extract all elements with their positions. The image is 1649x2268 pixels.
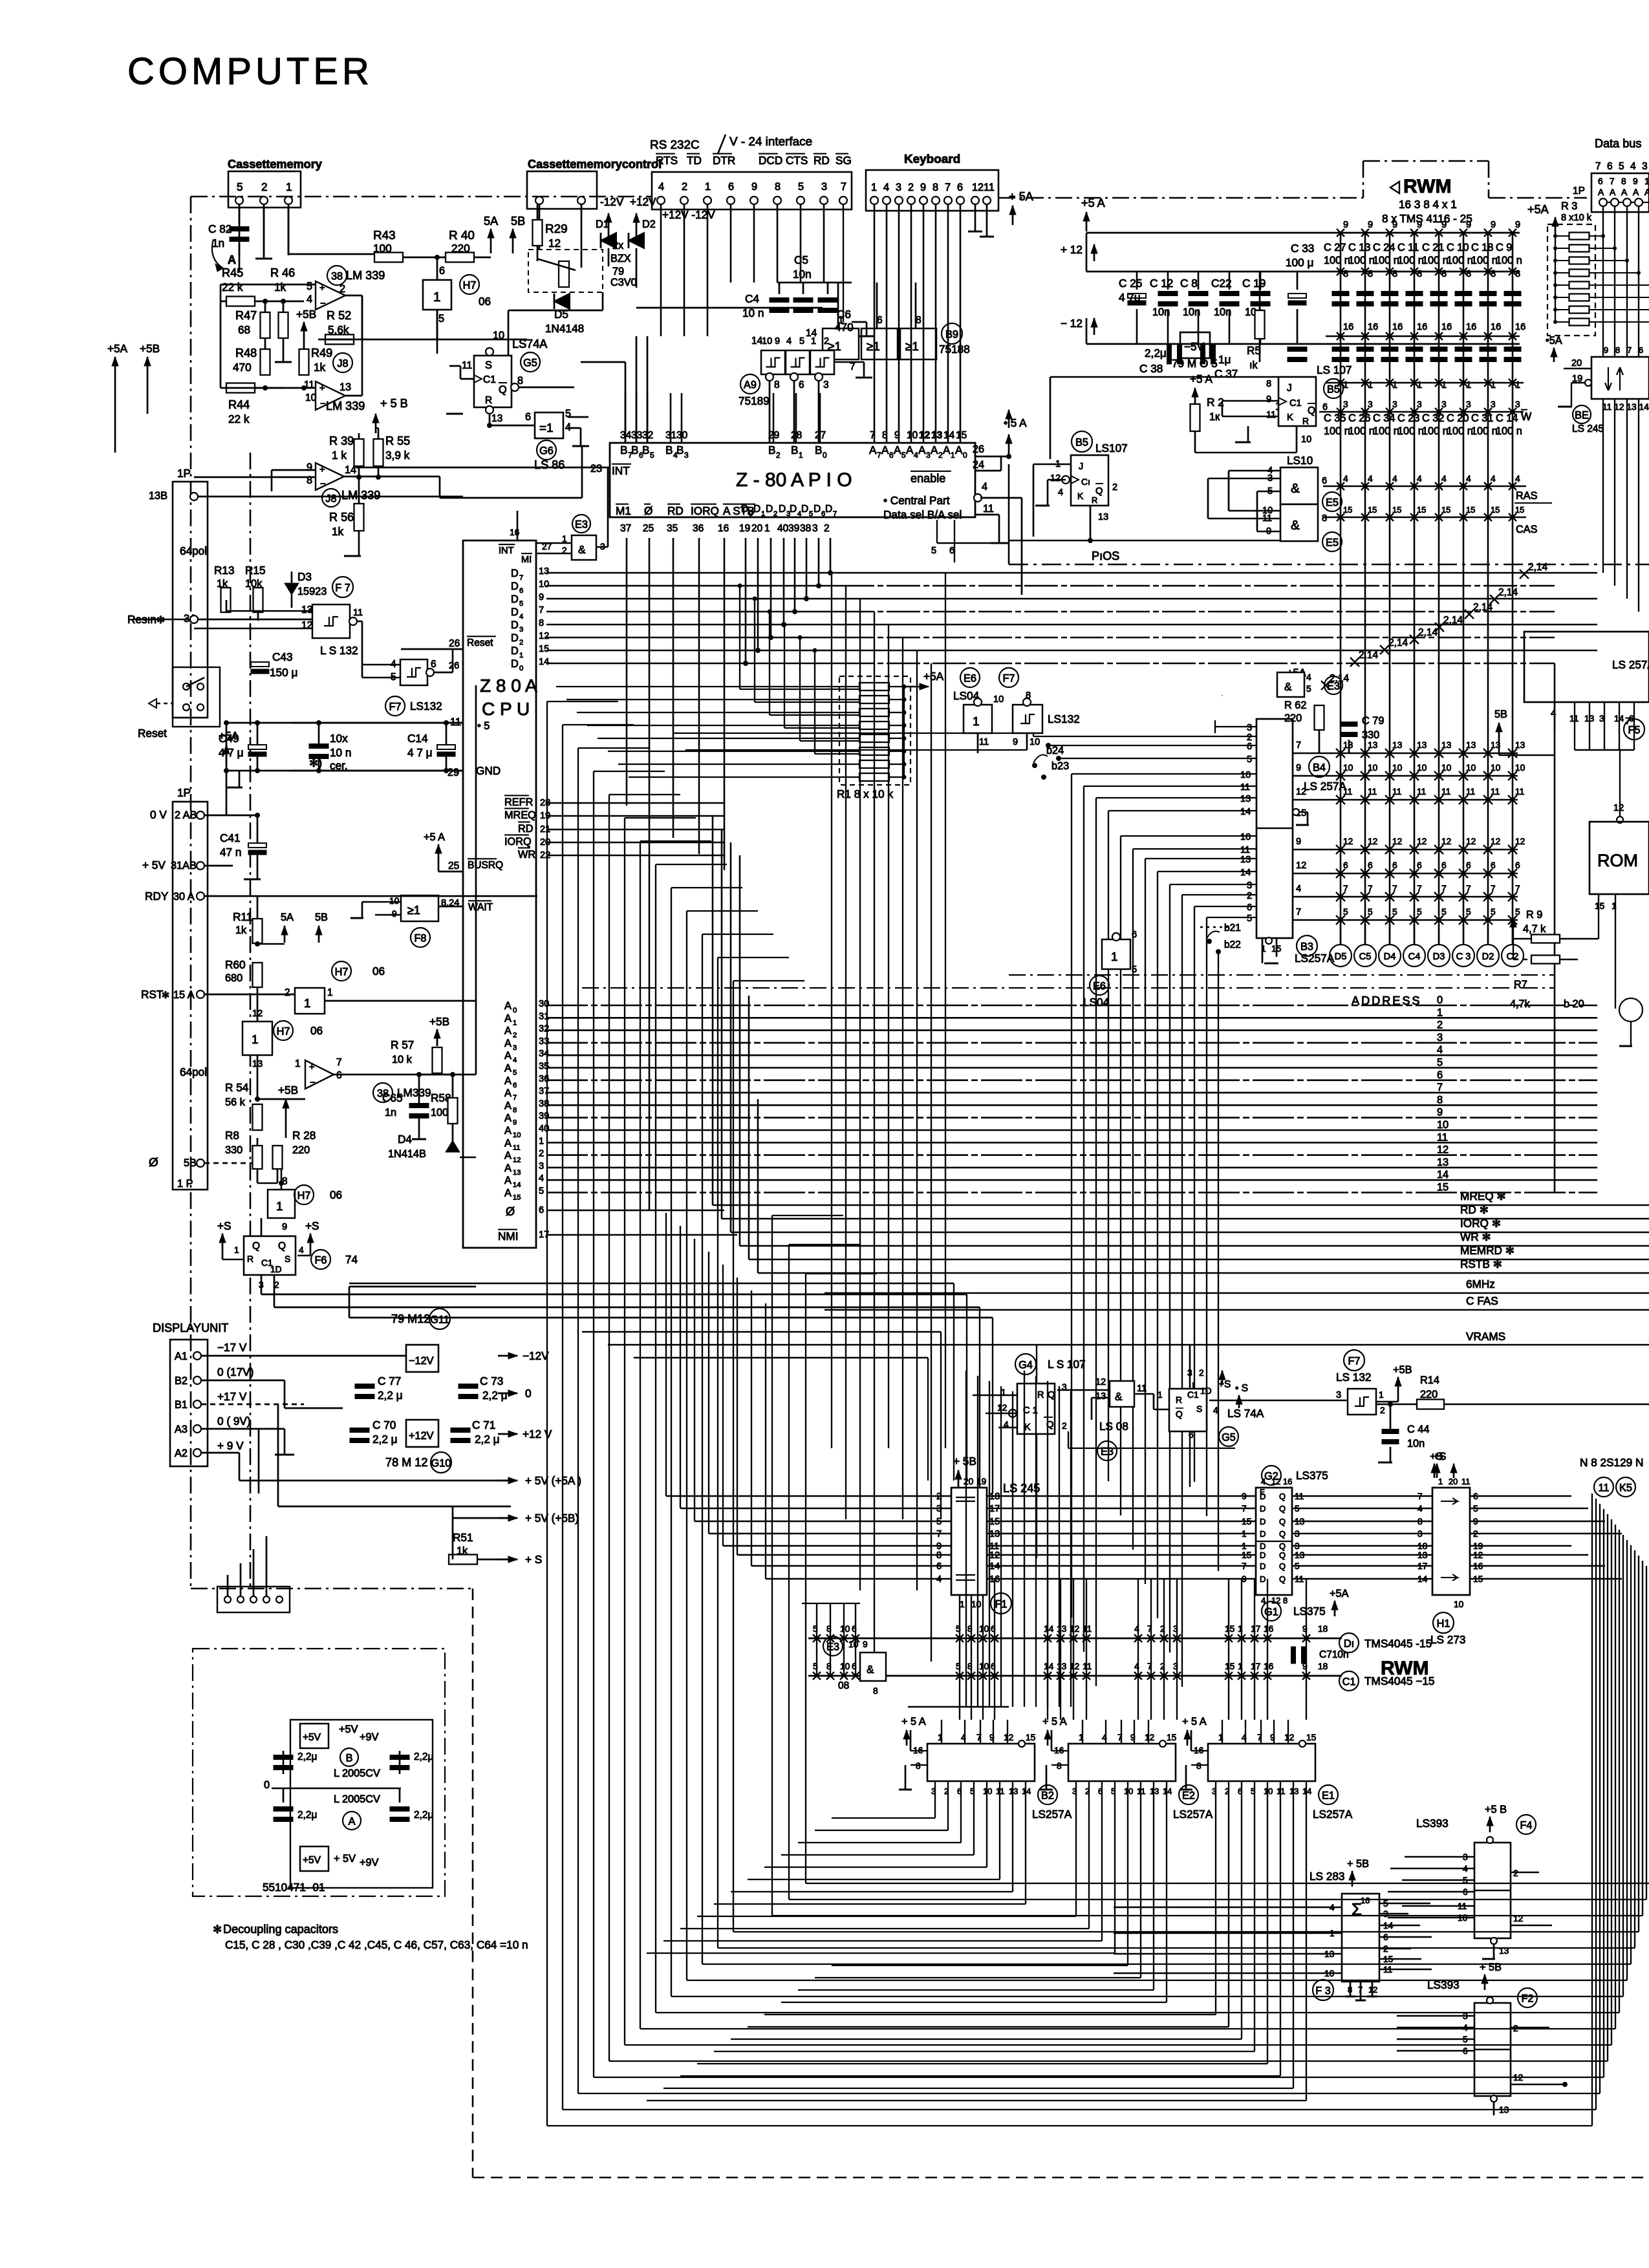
svg-text:R 3: R 3	[1561, 200, 1577, 212]
svg-text:3,9 k: 3,9 k	[385, 449, 410, 462]
svg-text:3: 3	[1515, 400, 1520, 409]
svg-text:LM 339: LM 339	[346, 269, 385, 282]
svg-text:15: 15	[1242, 1517, 1252, 1526]
svg-text:7: 7	[1417, 884, 1422, 893]
svg-text:A: A	[504, 1075, 512, 1087]
svg-text:LS 74A: LS 74A	[1227, 1407, 1264, 1420]
svg-text:15: 15	[1306, 1733, 1317, 1742]
svg-text:12: 12	[919, 430, 930, 441]
svg-text:1k: 1k	[332, 525, 344, 538]
svg-text:10: 10	[993, 694, 1004, 705]
svg-text:+5B: +5B	[296, 308, 316, 321]
svg-text:3: 3	[1343, 400, 1348, 409]
svg-text:13: 13	[931, 430, 943, 441]
svg-text:15: 15	[1343, 505, 1352, 515]
svg-text:R47: R47	[235, 309, 257, 322]
svg-text:C 18: C 18	[1471, 242, 1493, 253]
svg-text:C 19: C 19	[1242, 277, 1266, 290]
svg-text:15: 15	[513, 1194, 521, 1202]
svg-text:6: 6	[1491, 861, 1496, 870]
svg-text:C 73: C 73	[480, 1375, 503, 1387]
svg-text:2: 2	[1062, 1421, 1067, 1431]
svg-text:B3: B3	[1300, 941, 1313, 953]
svg-text:Ø: Ø	[644, 504, 652, 517]
svg-text:IORQ: IORQ	[504, 836, 532, 848]
svg-text:4: 4	[1491, 474, 1496, 484]
svg-text:C41: C41	[220, 831, 241, 844]
svg-text:7: 7	[1242, 1504, 1247, 1514]
svg-text:8: 8	[513, 1106, 517, 1114]
svg-text:10: 10	[1515, 763, 1525, 773]
svg-text:11: 11	[353, 608, 363, 618]
svg-text:&: &	[1115, 1390, 1123, 1403]
svg-text:7: 7	[1515, 884, 1520, 893]
svg-text:08: 08	[838, 1680, 849, 1691]
svg-text:1P: 1P	[177, 467, 191, 480]
svg-text:15: 15	[539, 644, 549, 654]
svg-text:A: A	[504, 1000, 512, 1012]
svg-text:D: D	[511, 594, 519, 605]
svg-text:3: 3	[1466, 400, 1471, 409]
svg-text:15 A: 15 A	[173, 989, 195, 1001]
svg-text:LS375: LS375	[1296, 1469, 1328, 1482]
svg-text:13: 13	[1437, 1157, 1449, 1168]
svg-text:12: 12	[1466, 837, 1476, 846]
svg-text:F 7: F 7	[335, 583, 350, 594]
svg-text:3: 3	[1599, 714, 1604, 723]
svg-text:31AB: 31AB	[171, 860, 197, 872]
svg-text:7: 7	[1441, 884, 1447, 893]
svg-text:R44: R44	[228, 398, 250, 411]
svg-text:9: 9	[392, 909, 397, 919]
svg-text:BZX: BZX	[610, 253, 631, 264]
svg-text:Cı: Cı	[1081, 477, 1090, 487]
svg-text:-12V: -12V	[600, 195, 624, 208]
svg-text:1k: 1k	[235, 925, 247, 936]
svg-text:LS375: LS375	[1293, 1605, 1326, 1618]
svg-text:+ 5B: + 5B	[1480, 1962, 1502, 1973]
svg-text:4: 4	[1306, 672, 1311, 682]
svg-text:WAIT: WAIT	[468, 902, 493, 913]
svg-text:D: D	[1260, 1550, 1266, 1560]
svg-text:J8: J8	[325, 493, 336, 505]
svg-text:14: 14	[1240, 868, 1251, 878]
svg-text:5: 5	[931, 546, 936, 556]
svg-text:10n: 10n	[1214, 306, 1231, 318]
svg-text:14: 14	[751, 336, 763, 347]
svg-text:5: 5	[1343, 907, 1348, 917]
svg-text:1: 1	[304, 997, 311, 1011]
svg-text:Cassettememorycontrol: Cassettememorycontrol	[528, 158, 662, 171]
svg-text:C 21: C 21	[1422, 242, 1444, 253]
svg-text:C 27: C 27	[1324, 242, 1346, 253]
svg-text:−: −	[320, 479, 326, 489]
svg-text:≥1: ≥1	[905, 340, 919, 354]
svg-text:1k: 1k	[314, 361, 326, 374]
svg-text:+12V -12V: +12V -12V	[662, 208, 715, 221]
svg-text:A: A	[1633, 187, 1639, 197]
svg-text:RST: RST	[141, 988, 164, 1001]
svg-text:13: 13	[1417, 740, 1427, 750]
svg-text:D: D	[766, 504, 773, 515]
svg-text:16: 16	[1466, 322, 1476, 332]
svg-text:1: 1	[1438, 1477, 1443, 1486]
svg-text:4: 4	[1058, 487, 1063, 498]
svg-text:100 n: 100 n	[1422, 255, 1449, 266]
svg-text:ık: ık	[1249, 359, 1258, 371]
svg-text:≥1: ≥1	[407, 904, 420, 917]
svg-text:A: A	[504, 1038, 512, 1049]
svg-text:RAS: RAS	[1516, 490, 1538, 502]
svg-text:+ 12: + 12	[1061, 243, 1083, 256]
svg-text:A: A	[504, 1025, 512, 1037]
svg-text:100 n: 100 n	[1496, 255, 1522, 266]
svg-text:+S: +S	[305, 1219, 319, 1232]
svg-text:2,2μ: 2,2μ	[297, 1810, 317, 1821]
svg-text:11: 11	[1240, 845, 1250, 855]
svg-text:E1: E1	[1322, 1790, 1335, 1802]
svg-text:C 33: C 33	[1291, 242, 1314, 255]
svg-text:LS 245: LS 245	[1003, 1482, 1040, 1495]
svg-text:22 k: 22 k	[222, 281, 243, 294]
svg-text:A1: A1	[175, 1351, 188, 1362]
svg-text:B5: B5	[1075, 437, 1088, 449]
svg-text:C 12: C 12	[1150, 277, 1173, 290]
svg-text:2: 2	[1112, 482, 1117, 493]
svg-text:R 57: R 57	[391, 1038, 414, 1051]
svg-text:10: 10	[1240, 770, 1251, 780]
svg-text:RD ✻: RD ✻	[1460, 1203, 1489, 1216]
svg-text:5: 5	[438, 313, 444, 325]
svg-text:C3V0: C3V0	[610, 277, 637, 288]
svg-text:+12V: +12V	[409, 1430, 434, 1442]
svg-text:5B: 5B	[1494, 709, 1507, 720]
svg-text:12: 12	[1296, 787, 1306, 797]
svg-text:100 n: 100 n	[1348, 425, 1375, 437]
svg-text:LS 245: LS 245	[1572, 423, 1604, 434]
svg-text:A: A	[504, 1113, 512, 1124]
svg-text:R 39: R 39	[329, 434, 354, 447]
svg-text:2,2μ: 2,2μ	[414, 1810, 433, 1821]
svg-text:4: 4	[1437, 1044, 1443, 1056]
svg-text:+5A: +5A	[1527, 203, 1549, 216]
svg-text:1: 1	[1242, 1541, 1247, 1551]
svg-text:K5: K5	[1619, 1482, 1632, 1494]
svg-text:B: B	[815, 444, 822, 456]
svg-text:9: 9	[1013, 737, 1018, 747]
svg-text:22 k: 22 k	[228, 412, 250, 425]
svg-text:E2: E2	[1182, 1790, 1195, 1802]
svg-text:R29: R29	[545, 222, 568, 236]
svg-text:✻: ✻	[162, 990, 169, 1001]
svg-text:8: 8	[1615, 345, 1620, 355]
svg-text:Reset: Reset	[467, 637, 493, 648]
svg-text:C5: C5	[794, 253, 808, 266]
svg-text:10: 10	[1029, 737, 1040, 747]
svg-text:13: 13	[513, 1169, 521, 1177]
svg-text:100 n: 100 n	[1496, 425, 1522, 437]
svg-text:C 44: C 44	[1407, 1424, 1429, 1435]
svg-text:BE: BE	[1575, 410, 1589, 422]
svg-text:0: 0	[1437, 994, 1443, 1006]
svg-text:TD: TD	[687, 154, 702, 167]
svg-text:16: 16	[1515, 322, 1525, 332]
svg-text:11: 11	[1441, 787, 1450, 797]
svg-text:G5: G5	[523, 358, 537, 369]
svg-text:6: 6	[957, 182, 963, 193]
svg-text:10 n: 10 n	[742, 306, 764, 319]
svg-text:2: 2	[908, 182, 914, 193]
svg-text:1: 1	[433, 290, 440, 305]
svg-text:4: 4	[883, 182, 889, 193]
svg-text:D: D	[1260, 1529, 1266, 1539]
svg-text:LS 86: LS 86	[534, 458, 565, 471]
svg-text:220: 220	[1420, 1389, 1438, 1400]
svg-text:26: 26	[449, 638, 460, 649]
svg-text:24: 24	[973, 459, 984, 471]
svg-text:14: 14	[1437, 1169, 1449, 1181]
svg-text:1P: 1P	[177, 786, 191, 799]
svg-text:12: 12	[1515, 837, 1525, 846]
svg-text:−: −	[320, 399, 326, 409]
svg-text:+5V: +5V	[339, 1724, 358, 1735]
svg-text:11: 11	[979, 737, 989, 747]
svg-text:D3: D3	[1433, 952, 1445, 962]
svg-text:0: 0	[264, 1779, 270, 1791]
svg-text:06: 06	[372, 965, 385, 978]
svg-text:100 n: 100 n	[1324, 255, 1350, 266]
svg-text:E3: E3	[826, 1642, 839, 1653]
svg-text:Q: Q	[252, 1241, 260, 1252]
svg-text:4: 4	[1515, 474, 1520, 484]
svg-text:37: 37	[620, 523, 631, 534]
svg-text:S: S	[285, 1254, 290, 1264]
svg-text:+5B: +5B	[140, 342, 160, 355]
svg-text:D4: D4	[398, 1133, 412, 1146]
svg-text:B: B	[676, 444, 684, 456]
svg-text:S: S	[1196, 1404, 1202, 1414]
svg-text:MREQ ✻: MREQ ✻	[1460, 1190, 1506, 1203]
svg-text:3: 3	[513, 1044, 517, 1052]
svg-text:3: 3	[926, 451, 931, 460]
svg-text:13: 13	[1098, 512, 1108, 522]
svg-text:b23: b23	[1051, 760, 1069, 772]
svg-text:11: 11	[513, 1144, 521, 1151]
svg-text:15: 15	[1466, 505, 1475, 515]
svg-text:COMPUTER: COMPUTER	[127, 50, 373, 92]
svg-text:7: 7	[841, 181, 846, 193]
svg-text:5: 5	[1368, 907, 1373, 917]
svg-text:W: W	[1521, 410, 1532, 423]
svg-text:C1: C1	[1342, 1676, 1356, 1688]
svg-text:12: 12	[1491, 837, 1500, 846]
svg-text:5: 5	[1247, 914, 1252, 924]
svg-text:R 40: R 40	[449, 229, 475, 242]
svg-text:68: 68	[238, 323, 250, 336]
svg-text:Q: Q	[1279, 1504, 1286, 1514]
svg-text:B4: B4	[1313, 762, 1326, 774]
svg-text:A: A	[955, 444, 963, 456]
svg-text:11: 11	[1392, 787, 1401, 797]
svg-text:10: 10	[1644, 177, 1649, 186]
svg-text:9: 9	[1266, 394, 1271, 405]
svg-text:− 12: − 12	[1061, 317, 1083, 330]
svg-text:10: 10	[1301, 434, 1311, 445]
svg-text:14: 14	[539, 657, 549, 667]
svg-text:+12V: +12V	[630, 195, 656, 208]
svg-text:WR ✻: WR ✻	[1460, 1230, 1491, 1243]
svg-text:13: 13	[301, 604, 312, 615]
svg-text:4 7 μ: 4 7 μ	[219, 746, 244, 759]
svg-text:A: A	[504, 1100, 512, 1111]
svg-text:K: K	[1077, 491, 1084, 501]
svg-text:E6: E6	[964, 673, 976, 685]
svg-text:+: +	[309, 1062, 315, 1073]
svg-text:470: 470	[835, 321, 854, 334]
svg-text:+5V: +5V	[303, 1732, 321, 1743]
svg-text:1: 1	[799, 451, 803, 460]
svg-text:✻: ✻	[156, 615, 165, 626]
svg-text:4: 4	[1368, 474, 1373, 484]
svg-text:B1: B1	[175, 1399, 188, 1411]
svg-text:26: 26	[449, 661, 459, 671]
svg-text:330: 330	[1362, 729, 1379, 741]
svg-text:16: 16	[1491, 322, 1501, 332]
svg-text:1D: 1D	[1200, 1386, 1212, 1396]
svg-text:8: 8	[1621, 177, 1626, 186]
svg-text:8: 8	[1196, 1761, 1202, 1771]
svg-text:100 n: 100 n	[1447, 255, 1473, 266]
svg-text:K: K	[1287, 412, 1293, 423]
svg-text:12: 12	[1613, 803, 1624, 813]
svg-text:12: 12	[1417, 837, 1427, 846]
svg-text:+: +	[319, 283, 325, 294]
svg-text:10n: 10n	[1152, 306, 1170, 318]
svg-text:D: D	[1260, 1504, 1266, 1514]
svg-text:5: 5	[901, 451, 906, 460]
svg-text:10: 10	[979, 1662, 989, 1671]
svg-text:R13: R13	[214, 564, 235, 577]
svg-text:LS132: LS132	[1048, 712, 1080, 725]
svg-text:MI: MI	[521, 555, 532, 565]
svg-text:B5: B5	[1327, 384, 1340, 396]
svg-text:1: 1	[295, 1058, 301, 1069]
svg-text:16: 16	[510, 528, 520, 537]
svg-text:C1: C1	[1187, 1390, 1199, 1400]
svg-text:5: 5	[1132, 965, 1137, 975]
svg-text:+5V: +5V	[303, 1855, 321, 1866]
svg-text:12: 12	[1368, 837, 1377, 846]
svg-text:13: 13	[1095, 1391, 1106, 1402]
svg-text:E5: E5	[1326, 537, 1339, 549]
svg-text:R: R	[1302, 416, 1309, 426]
svg-text:4: 4	[307, 294, 312, 305]
svg-text:15: 15	[1167, 1733, 1177, 1742]
svg-text:6: 6	[439, 265, 445, 277]
svg-text:16: 16	[1264, 1624, 1274, 1634]
svg-text:+9V: +9V	[360, 1731, 379, 1743]
svg-text:R15: R15	[245, 564, 266, 577]
svg-text:5: 5	[1619, 161, 1624, 172]
svg-text:D: D	[511, 568, 519, 579]
svg-text:DCD: DCD	[759, 154, 782, 167]
svg-text:Z - 80 A P I O: Z - 80 A P I O	[736, 469, 852, 491]
svg-text:100 n: 100 n	[1397, 255, 1424, 266]
svg-text:A: A	[918, 444, 926, 456]
svg-text:11: 11	[1599, 1482, 1610, 1494]
svg-text:4: 4	[786, 336, 792, 347]
svg-text:5: 5	[1466, 907, 1471, 917]
svg-text:H7: H7	[335, 967, 349, 978]
svg-text:6: 6	[1639, 345, 1643, 355]
svg-text:−12V: −12V	[523, 1349, 549, 1362]
svg-text:14: 14	[1240, 807, 1251, 817]
svg-text:F4: F4	[1520, 1820, 1532, 1832]
svg-text:11: 11	[1137, 1384, 1147, 1394]
svg-text:R 62: R 62	[1284, 700, 1306, 711]
svg-text:A: A	[504, 1150, 512, 1162]
svg-text:B: B	[620, 444, 627, 456]
svg-text:3: 3	[823, 380, 829, 390]
svg-text:64pol: 64pol	[180, 544, 207, 557]
svg-text:5: 5	[1417, 907, 1422, 917]
svg-text:2,2μ: 2,2μ	[414, 1751, 433, 1762]
svg-text:A: A	[504, 1063, 512, 1075]
svg-text:F7: F7	[389, 701, 401, 713]
svg-text:C4: C4	[1408, 952, 1421, 962]
svg-text:12: 12	[1145, 1733, 1154, 1742]
svg-text:LS 132: LS 132	[1336, 1371, 1371, 1384]
svg-text:14: 14	[1044, 1624, 1054, 1634]
svg-text:C FAS: C FAS	[1466, 1294, 1498, 1307]
svg-text:20: 20	[964, 1477, 974, 1486]
svg-text:3: 3	[1247, 723, 1252, 733]
svg-text:11: 11	[1266, 410, 1276, 420]
svg-text:A: A	[349, 1816, 356, 1828]
svg-text:LM 339: LM 339	[326, 400, 365, 412]
svg-text:2,2μ: 2,2μ	[1145, 347, 1167, 359]
svg-text:R 56: R 56	[329, 511, 354, 524]
svg-text:13B: 13B	[149, 490, 167, 502]
svg-text:6: 6	[852, 1624, 857, 1634]
svg-text:LS 283: LS 283	[1309, 1870, 1344, 1883]
svg-text:12: 12	[539, 631, 549, 641]
svg-text:40: 40	[777, 523, 789, 534]
svg-text:10: 10	[1343, 763, 1353, 773]
svg-text:5: 5	[650, 451, 654, 460]
svg-text:12: 12	[1095, 1377, 1106, 1387]
svg-text:A: A	[869, 444, 877, 456]
svg-text:R14: R14	[1420, 1375, 1439, 1386]
svg-text:D5: D5	[1335, 952, 1347, 962]
svg-text:Q: Q	[1279, 1492, 1286, 1501]
svg-text:3: 3	[812, 523, 818, 534]
svg-text:5: 5	[799, 336, 804, 347]
svg-text:0: 0	[823, 451, 827, 460]
svg-text:1: 1	[1111, 950, 1118, 964]
svg-text:4: 4	[513, 1056, 517, 1064]
svg-text:4: 4	[1417, 474, 1422, 484]
svg-text:GND: GND	[476, 764, 501, 777]
svg-text:IORQ: IORQ	[691, 504, 719, 517]
svg-text:L S 107: L S 107	[1048, 1358, 1086, 1371]
svg-text:5B: 5B	[184, 1157, 197, 1169]
svg-text:R: R	[1037, 1390, 1044, 1400]
svg-text:8: 8	[1437, 1094, 1443, 1106]
svg-text:A: A	[504, 1087, 512, 1099]
svg-text:Q: Q	[278, 1241, 286, 1252]
svg-text:RWM: RWM	[1403, 176, 1451, 197]
